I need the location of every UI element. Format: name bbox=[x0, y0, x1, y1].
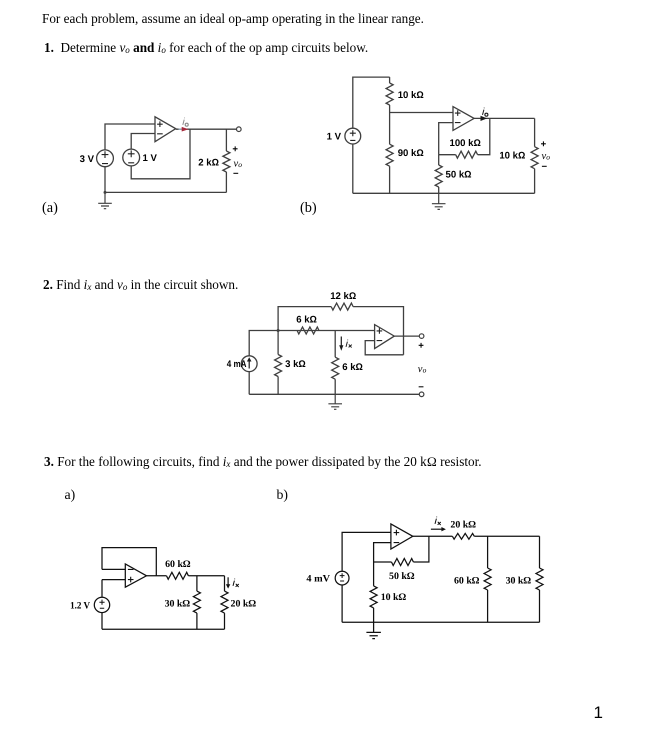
op-amp 3b plus-minus bbox=[394, 530, 400, 543]
junction dot circuit 2 bbox=[277, 329, 280, 332]
svg-text:+: + bbox=[232, 144, 238, 155]
wire 6k to bottom rail bbox=[334, 379, 336, 394]
bottom rail 3a bbox=[102, 628, 225, 630]
svg-text:10 kΩ: 10 kΩ bbox=[381, 592, 407, 603]
resistor 50k bbox=[435, 165, 442, 187]
terminal circle a bbox=[237, 127, 242, 132]
wire top from 3V to op-amp + input bbox=[105, 124, 155, 150]
resistor 50k bbox=[392, 559, 414, 566]
current arrow io (red) bbox=[179, 128, 183, 130]
resistor 6k horizontal bbox=[297, 327, 319, 334]
wire minus input feedback left bbox=[439, 123, 453, 155]
header line bbox=[42, 11, 424, 27]
wire ix column down to 6k bbox=[334, 331, 336, 358]
svg-text:60 kΩ: 60 kΩ bbox=[454, 575, 480, 586]
wire 1V top to op-amp - input bbox=[131, 134, 155, 150]
ground b bbox=[432, 193, 446, 209]
bottom rail 3b bbox=[342, 621, 539, 623]
wire 1V bottom feedback to output bbox=[131, 129, 190, 179]
resistor 30k 3b bbox=[536, 568, 543, 590]
wire op-amp output right bbox=[474, 117, 534, 119]
wire 10k to mid node bbox=[389, 105, 391, 144]
wire 12k to feedback column bbox=[353, 307, 403, 355]
bottom rail circuit a bbox=[105, 191, 226, 193]
resistor 60k 3b bbox=[484, 568, 491, 590]
resistor 90k bbox=[386, 144, 393, 166]
svg-text:+: + bbox=[418, 340, 424, 351]
wire 10k load bottom bbox=[534, 169, 536, 194]
wire source top 3a bbox=[101, 580, 103, 598]
wire node column down to 3k bbox=[277, 331, 279, 355]
wire top to 10k bbox=[389, 77, 391, 83]
label a) bbox=[65, 487, 76, 503]
resistor 20k bbox=[221, 591, 228, 613]
svg-text:−: − bbox=[233, 169, 239, 180]
label io b bbox=[483, 108, 488, 117]
ground stem 3b bbox=[366, 622, 381, 638]
wire 30k bottom 3b bbox=[539, 590, 541, 622]
label b) bbox=[277, 487, 289, 503]
wire 50k to bottom bbox=[438, 187, 440, 193]
wire feedback row left bbox=[374, 561, 392, 563]
source 1.2V signs bbox=[99, 600, 104, 609]
voltage source 1V bbox=[123, 149, 140, 166]
ix arrow down bbox=[340, 337, 342, 348]
wire 60k to right column bbox=[188, 575, 224, 577]
wire 30k column bbox=[196, 576, 198, 591]
resistor 30k bbox=[193, 591, 200, 613]
svg-text:+: + bbox=[541, 139, 547, 150]
wire 50k branch bbox=[438, 155, 440, 165]
ix arrow 3a bbox=[227, 577, 229, 586]
resistor 10k load bbox=[531, 147, 538, 169]
resistor 10k divider bbox=[386, 83, 393, 105]
wire source bottom to bottom rail bbox=[248, 372, 250, 395]
current source arrow bbox=[248, 360, 250, 369]
wire mid node to op-amp plus bbox=[390, 112, 453, 114]
wire 10k column 3b bbox=[373, 562, 375, 586]
label ix 3b bbox=[435, 517, 441, 525]
resistor 12k bbox=[331, 303, 353, 310]
wire source to plus input 3b bbox=[342, 532, 391, 571]
wire 20k column bbox=[224, 576, 226, 591]
wire minus input to feedback 3b bbox=[374, 543, 391, 562]
current source 4mA bbox=[241, 356, 257, 372]
svg-text:30 kΩ: 30 kΩ bbox=[165, 598, 191, 609]
voltage source 1V b bbox=[345, 128, 361, 144]
label (b) bbox=[300, 200, 317, 217]
wire 3k to bottom rail bbox=[277, 377, 279, 395]
problem 3 line bbox=[44, 454, 482, 470]
svg-text:100 kΩ: 100 kΩ bbox=[450, 138, 481, 149]
label io gray bbox=[183, 118, 188, 127]
wire 90k to bottom rail bbox=[389, 166, 391, 193]
svg-text:6 kΩ: 6 kΩ bbox=[296, 315, 317, 326]
svg-text:12 kΩ: 12 kΩ bbox=[330, 291, 356, 302]
svg-text:50 kΩ: 50 kΩ bbox=[389, 571, 415, 582]
terminal bottom 2 bbox=[419, 392, 424, 397]
wire right column down to 10k bbox=[534, 118, 536, 146]
op-amp a plus-minus bbox=[157, 121, 163, 133]
resistor 6k vertical bbox=[332, 357, 339, 379]
wire 60k bottom 3b bbox=[487, 590, 489, 622]
voltage source 1.2V bbox=[94, 597, 109, 612]
svg-text:1 V: 1 V bbox=[327, 132, 342, 143]
problem 2 line bbox=[43, 277, 238, 293]
ix arrow 3b bbox=[431, 528, 443, 530]
wire 20k bottom bbox=[224, 613, 226, 629]
voltage source 4mV bbox=[335, 571, 349, 585]
wire 60k column 3b bbox=[487, 536, 489, 568]
wire feedback node to 100k bbox=[439, 154, 456, 156]
svg-text:o: o bbox=[238, 160, 242, 169]
op-amp 2 plus-minus bbox=[377, 328, 383, 341]
wire feedback row right and up bbox=[413, 536, 429, 562]
voltage source 3V bbox=[97, 150, 114, 167]
ground 2 bbox=[328, 394, 342, 409]
source 4mV signs bbox=[340, 573, 345, 581]
svg-text:−: − bbox=[418, 382, 424, 393]
wire node column up to top rail bbox=[278, 307, 331, 331]
svg-text:4 mV: 4 mV bbox=[306, 574, 330, 585]
svg-text:1 V: 1 V bbox=[143, 153, 158, 164]
source 1V b signs bbox=[350, 130, 356, 140]
wire plus input 3a bbox=[102, 579, 125, 581]
svg-text:20 kΩ: 20 kΩ bbox=[450, 520, 476, 531]
ground circuit a bbox=[98, 192, 112, 208]
wire 2k bottom to bottom rail bbox=[225, 172, 227, 192]
resistor 2k zigzag bbox=[223, 151, 230, 172]
terminal top 2 bbox=[419, 334, 424, 339]
wire 1V bottom bbox=[352, 144, 354, 193]
resistor 10k 3b bbox=[370, 586, 377, 608]
wire 30k bottom bbox=[196, 613, 198, 629]
op-amp U3b bbox=[391, 524, 413, 549]
svg-text:o: o bbox=[423, 366, 427, 375]
svg-text:60 kΩ: 60 kΩ bbox=[165, 559, 191, 570]
wire source bottom 3a bbox=[101, 613, 103, 630]
svg-text:10 kΩ: 10 kΩ bbox=[398, 90, 424, 101]
wire 10k bottom 3b bbox=[373, 608, 375, 622]
wire output 3b bbox=[413, 535, 453, 537]
wire 3V bottom to ground node bbox=[104, 167, 106, 193]
resistor 100k horizontal bbox=[456, 151, 478, 158]
op-amp U3a bbox=[125, 564, 146, 587]
svg-text:3 kΩ: 3 kΩ bbox=[285, 359, 306, 370]
wire source bottom 3b bbox=[341, 585, 343, 622]
svg-text:30 kΩ: 30 kΩ bbox=[506, 575, 532, 586]
svg-text:−: − bbox=[542, 162, 548, 173]
op-amp U-b bbox=[453, 107, 474, 131]
resistor 60k bbox=[167, 572, 189, 579]
wire 1V top rail bbox=[353, 77, 390, 128]
wire output down to 2k resistor bbox=[225, 129, 227, 151]
svg-text:2 kΩ: 2 kΩ bbox=[198, 158, 219, 169]
op-amp U2 bbox=[375, 325, 395, 349]
svg-text:6 kΩ: 6 kΩ bbox=[342, 362, 363, 373]
svg-text:4 mA: 4 mA bbox=[227, 359, 247, 370]
problem 1 line bbox=[44, 40, 368, 56]
svg-text:50 kΩ: 50 kΩ bbox=[446, 170, 472, 181]
label ix 2 bbox=[346, 340, 352, 348]
wire 30k column 3b bbox=[539, 536, 541, 568]
op-amp 3a plus-minus bbox=[128, 569, 134, 582]
op-amp U-a bbox=[155, 117, 176, 142]
resistor 20k 3b bbox=[452, 533, 474, 539]
svg-text:o: o bbox=[546, 152, 550, 161]
page number bbox=[594, 703, 603, 723]
wire output to terminal bbox=[394, 335, 419, 337]
feedback rectangle 3a bbox=[102, 548, 156, 576]
wire 100k to output column bbox=[478, 118, 490, 154]
svg-text:3 V: 3 V bbox=[80, 154, 95, 165]
svg-text:10 kΩ: 10 kΩ bbox=[499, 151, 525, 162]
label (a) bbox=[42, 200, 58, 217]
junction dot a bbox=[104, 191, 107, 194]
bottom rail 2 bbox=[249, 393, 419, 395]
op-amp b plus-minus bbox=[455, 110, 461, 122]
source 3V signs bbox=[102, 150, 135, 163]
wire output to 60k bbox=[147, 575, 167, 577]
svg-text:20 kΩ: 20 kΩ bbox=[231, 598, 257, 609]
wire source top to main rail bbox=[249, 331, 374, 356]
wire 20k to right column 3b bbox=[474, 535, 539, 537]
resistor 3k bbox=[275, 355, 282, 377]
bottom rail b bbox=[353, 192, 535, 194]
current arrow io b (black) bbox=[481, 116, 488, 121]
wire minus input 3a bbox=[102, 568, 125, 570]
label ix 3a bbox=[233, 579, 239, 587]
wire minus wraparound bbox=[365, 341, 403, 355]
wire op-amp output to terminal bbox=[176, 128, 237, 130]
svg-text:90 kΩ: 90 kΩ bbox=[398, 148, 424, 159]
svg-text:1.2 V: 1.2 V bbox=[70, 600, 91, 611]
